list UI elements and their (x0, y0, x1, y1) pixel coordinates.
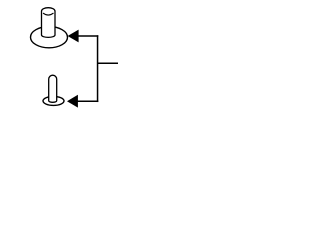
connector J1 top face arc (43, 13, 54, 15)
wire vertical bus (97, 35, 99, 102)
wire top horizontal (78, 35, 98, 37)
connector J2 flange bottom (43, 96, 64, 105)
wire bottom horizontal (77, 100, 98, 102)
connector J1 flange top (31, 27, 68, 48)
wire stub node (98, 62, 118, 64)
connector J2 cylinder bottom (49, 75, 57, 102)
connector J1 cylinder top (42, 8, 56, 38)
arrow pin 2 (68, 95, 78, 107)
arrow pin 1 (68, 30, 78, 42)
